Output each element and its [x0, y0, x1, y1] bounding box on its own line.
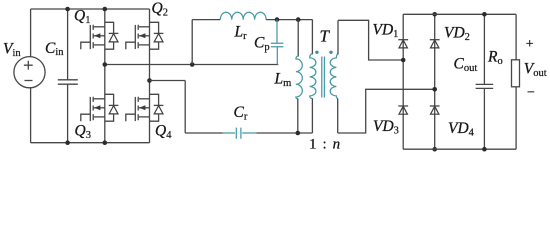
node dot A [103, 62, 108, 67]
wire Cr left teal [223, 132, 235, 134]
node dot Cp tap [275, 17, 280, 22]
node dot Cin bottom [65, 140, 70, 145]
transistor Q4 [126, 94, 164, 121]
svg-text:Q2: Q2 [152, 0, 168, 19]
svg-text:T: T [320, 27, 331, 46]
capacitor Cp plates [271, 43, 284, 47]
voltage source Vin circle [14, 57, 45, 88]
wire Cr right black [256, 132, 312, 134]
svg-text:Cp: Cp [254, 35, 270, 54]
node dot B [147, 78, 152, 83]
wire left rail lower [30, 88, 32, 143]
svg-text:VD2: VD2 [444, 25, 470, 44]
node dot Q3 source bottom [103, 140, 108, 145]
svg-text:Ro: Ro [487, 49, 503, 68]
capacitor Cp wire upper [276, 20, 278, 44]
svg-text:Q4: Q4 [155, 123, 172, 142]
wire bottom bus [31, 142, 150, 144]
node dot Cout top [482, 12, 487, 17]
svg-text:−: − [527, 86, 535, 101]
svg-text:Lm: Lm [274, 71, 292, 90]
node dot VD2 top [432, 12, 437, 17]
node dot Lm tap [296, 17, 301, 22]
diode VD1 [398, 40, 408, 48]
transformer secondary wire bottom [337, 98, 339, 133]
node A rail [105, 64, 278, 66]
transformer T primary winding [310, 53, 316, 98]
inductor Lr [220, 12, 266, 19]
diode VD3 [398, 106, 408, 114]
wire node B drop [184, 81, 186, 134]
svg-text:+: + [526, 37, 534, 52]
wire Lr branch right [266, 19, 312, 21]
transistor Q2 [126, 22, 164, 49]
node dot Cout bottom [482, 147, 487, 152]
polarity dot secondary [329, 51, 332, 54]
node dot bridge input 2 [432, 87, 437, 92]
wire Q1 Q3 leg vertical [104, 9, 106, 143]
svg-text:Lr: Lr [234, 24, 248, 43]
capacitor Cout wire lower [483, 88, 485, 149]
transistor Q1 [81, 22, 119, 49]
transformer T core [322, 57, 325, 98]
wire secondary top to bridge [338, 20, 403, 60]
node dot Cin top [65, 7, 70, 12]
capacitor Cin plates [58, 80, 78, 84]
svg-text:1 : n: 1 : n [309, 136, 341, 152]
inductor Lm [296, 56, 302, 99]
inductor Lm wire lower [297, 99, 299, 134]
capacitor Cr plates [236, 128, 241, 139]
svg-text:VD3: VD3 [373, 118, 399, 137]
svg-text:Cr: Cr [234, 104, 248, 123]
svg-text:Q1: Q1 [74, 8, 90, 27]
minus sign in source [25, 80, 33, 82]
wire secondary bottom to bridge [338, 89, 435, 133]
wire Cr left black [185, 132, 223, 134]
capacitor Cin wire upper [67, 9, 69, 80]
wire Lr branch left [192, 19, 220, 21]
transformer T primary wire top [311, 20, 313, 55]
capacitor Cin wire lower [67, 84, 69, 143]
svg-text:VD4: VD4 [448, 120, 475, 139]
diode VD4 [430, 106, 440, 114]
node dot Q1 drain top [103, 7, 108, 12]
wire Q2 Q4 leg vertical [149, 9, 151, 143]
wire top bus [31, 8, 150, 10]
wire bridge column 1 [402, 14, 404, 149]
resistor Ro wire upper [515, 14, 517, 60]
polarity dot primary [315, 51, 318, 54]
wire node B rail [150, 80, 186, 82]
diode VD2 [430, 40, 440, 48]
node dot bottom center [296, 131, 301, 136]
resistor Ro body [512, 60, 520, 87]
wire riser to Lr [191, 20, 193, 65]
wire output top rail [403, 13, 516, 15]
wire output bottom rail [403, 148, 516, 150]
capacitor Cout plates [476, 84, 494, 88]
wire left rail upper [30, 9, 32, 57]
plus sign in source [24, 61, 33, 70]
transformer secondary wire top [337, 20, 339, 54]
svg-text:Cout: Cout [454, 56, 478, 75]
svg-text:VD1: VD1 [373, 22, 399, 41]
transformer T primary wire bottom [311, 98, 313, 133]
capacitor Cp wire lower [276, 47, 278, 65]
svg-text:Vout: Vout [524, 61, 547, 80]
wire Cr right teal [242, 132, 256, 134]
node dot riser junction [190, 62, 195, 67]
transformer T secondary winding [330, 53, 338, 98]
capacitor Cout wire upper [483, 14, 485, 84]
inductor Lm wire upper [297, 20, 299, 57]
node dot VD4 bottom [432, 147, 437, 152]
svg-text:Vin: Vin [3, 41, 21, 60]
svg-text:Cin: Cin [45, 40, 64, 58]
transistor Q3 [81, 94, 119, 121]
svg-text:Q3: Q3 [75, 123, 91, 142]
node dot bridge input 1 [401, 58, 406, 63]
resistor Ro wire lower [515, 87, 517, 149]
wire bridge column 2 [434, 14, 436, 149]
